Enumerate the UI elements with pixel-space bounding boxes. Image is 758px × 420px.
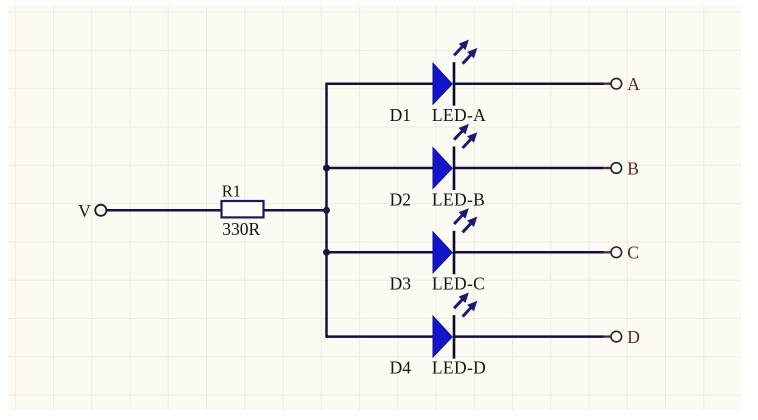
- svg-text:LED-C: LED-C: [432, 274, 485, 294]
- svg-text:D1: D1: [390, 105, 411, 125]
- svg-text:D4: D4: [390, 358, 412, 378]
- svg-text:LED-A: LED-A: [432, 105, 486, 125]
- svg-text:D2: D2: [390, 190, 411, 210]
- svg-text:A: A: [627, 74, 640, 94]
- svg-text:LED-B: LED-B: [432, 190, 485, 210]
- svg-text:330R: 330R: [222, 219, 260, 239]
- svg-text:R1: R1: [222, 182, 241, 201]
- svg-text:D: D: [627, 327, 640, 347]
- svg-text:LED-D: LED-D: [432, 358, 486, 378]
- svg-text:V: V: [78, 201, 91, 221]
- svg-text:D3: D3: [390, 274, 412, 294]
- svg-text:B: B: [627, 158, 639, 178]
- svg-text:C: C: [627, 243, 639, 263]
